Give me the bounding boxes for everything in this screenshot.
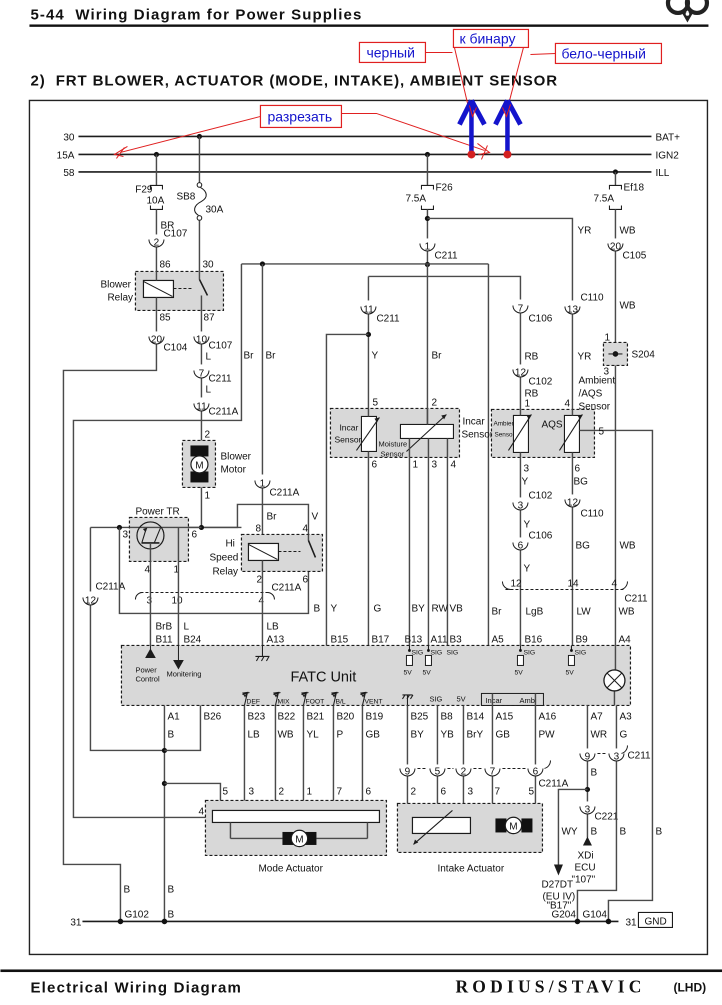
- node: F29 tap on IGN2: [154, 152, 159, 157]
- svg-text:LB: LB: [266, 621, 279, 632]
- svg-text:1: 1: [425, 241, 431, 252]
- wire L to FATC B24: [177, 592, 179, 645]
- svg-text:5: 5: [435, 766, 441, 777]
- wire WB to S204: [614, 251, 616, 342]
- header rule: [29, 24, 708, 26]
- relay Hi Speed Relay: [209, 523, 322, 585]
- diagram outer border: [29, 100, 707, 954]
- terminal XDi ECU: [583, 836, 592, 845]
- wire BY drop to B13: [408, 457, 410, 645]
- svg-text:C105: C105: [622, 250, 646, 261]
- svg-text:B22: B22: [277, 711, 295, 722]
- svg-text:Y: Y: [521, 476, 528, 487]
- svg-text:11: 11: [363, 304, 374, 315]
- svg-text:Y: Y: [523, 519, 530, 530]
- svg-text:SIG: SIG: [574, 649, 586, 656]
- wire WY branch: [558, 789, 587, 864]
- svg-text:B16: B16: [524, 634, 542, 645]
- svg-text:1: 1: [604, 332, 610, 343]
- svg-text:5V: 5V: [565, 669, 574, 676]
- sensor unit Ambient/AQS: [491, 409, 594, 457]
- wire A16 to C211A-6: [534, 705, 536, 764]
- svg-text:3: 3: [523, 463, 529, 474]
- svg-text:A15: A15: [495, 711, 513, 722]
- transistor Power TR: [122, 506, 201, 575]
- svg-text:G: G: [373, 603, 381, 614]
- wire BG chain to B9: [571, 457, 573, 494]
- svg-text:6: 6: [191, 529, 197, 540]
- svg-text:8: 8: [255, 523, 261, 534]
- svg-text:C107: C107: [208, 340, 232, 351]
- svg-text:14: 14: [567, 578, 579, 589]
- svg-text:B8: B8: [440, 711, 453, 722]
- footer rule: [0, 969, 722, 972]
- svg-text:7: 7: [199, 368, 205, 379]
- svg-text:A11: A11: [430, 634, 447, 645]
- svg-text:12: 12: [567, 497, 579, 508]
- svg-text:GB: GB: [365, 729, 380, 740]
- svg-text:разрезать: разрезать: [267, 108, 332, 124]
- wire RB feeder: [368, 276, 520, 299]
- svg-text:C211A: C211A: [208, 406, 238, 417]
- svg-text:2: 2: [278, 786, 284, 797]
- svg-text:B13: B13: [404, 634, 422, 645]
- svg-text:G: G: [619, 729, 627, 740]
- svg-text:4: 4: [564, 398, 570, 409]
- svg-text:Br: Br: [243, 350, 254, 361]
- svg-text:B: B: [590, 826, 597, 837]
- svg-text:9: 9: [585, 751, 591, 762]
- svg-text:P: P: [336, 729, 343, 740]
- svg-text:WB: WB: [619, 300, 635, 311]
- svg-text:WY: WY: [561, 826, 577, 837]
- svg-text:C106: C106: [528, 313, 552, 324]
- mode actuator pin labels: [198, 786, 371, 817]
- svg-text:WB: WB: [277, 729, 293, 740]
- svg-text:C211A: C211A: [269, 487, 299, 498]
- svg-text:6: 6: [371, 459, 377, 470]
- svg-text:B3: B3: [449, 634, 462, 645]
- wire Y branch to B15 rail: [326, 334, 368, 645]
- svg-text:B24: B24: [183, 634, 201, 645]
- wire transistor base feed: [90, 526, 241, 528]
- svg-text:BG: BG: [575, 540, 590, 551]
- svg-text:B: B: [167, 909, 174, 920]
- connector C104 pin 20: [149, 334, 188, 353]
- svg-text:D27DT: D27DT: [541, 879, 573, 890]
- wire B19 to mode6: [361, 705, 363, 812]
- svg-text:C102: C102: [528, 376, 552, 387]
- svg-text:13: 13: [567, 304, 579, 315]
- svg-text:Power: Power: [135, 665, 157, 674]
- svg-text:Motor: Motor: [220, 464, 246, 475]
- wire B8 to C211A-5: [436, 705, 438, 764]
- svg-text:LB: LB: [247, 729, 260, 740]
- svg-text:10: 10: [171, 595, 183, 606]
- svg-text:30A: 30A: [205, 204, 223, 215]
- svg-text:C110: C110: [580, 292, 604, 303]
- lamp indicator in FATC: [604, 645, 625, 705]
- svg-text:B: B: [167, 884, 174, 895]
- svg-text:6: 6: [533, 766, 539, 777]
- node G204: [575, 919, 581, 925]
- node: SB8 tap on BAT+: [197, 134, 202, 139]
- svg-text:M: M: [195, 460, 203, 471]
- svg-text:Blower: Blower: [100, 279, 131, 290]
- svg-text:B25: B25: [410, 711, 428, 722]
- node collector junction: [199, 525, 204, 530]
- svg-text:SIG: SIG: [430, 649, 442, 656]
- svg-text:Mode Actuator: Mode Actuator: [258, 863, 323, 874]
- svg-text:B17: B17: [371, 634, 389, 645]
- svg-text:B: B: [167, 729, 174, 740]
- svg-text:C107: C107: [163, 228, 187, 239]
- svg-text:L: L: [183, 621, 189, 632]
- SsangYong logo: [668, 0, 707, 21]
- svg-text:12: 12: [85, 595, 97, 606]
- svg-text:VB: VB: [449, 603, 463, 614]
- svg-text:Br: Br: [266, 511, 277, 522]
- node F26 out: [425, 216, 430, 221]
- splice S204: [603, 342, 655, 365]
- svg-text:B23: B23: [247, 711, 265, 722]
- svg-text:10A: 10A: [146, 195, 164, 206]
- svg-text:C102: C102: [528, 490, 552, 501]
- svg-text:Sensor: Sensor: [380, 449, 404, 458]
- svg-text:9: 9: [405, 766, 411, 777]
- wire RB to Ambient pin1: [519, 377, 521, 409]
- svg-text:6: 6: [302, 574, 308, 585]
- wire C211-11 down: [367, 314, 369, 408]
- svg-text:Sensor: Sensor: [494, 431, 515, 438]
- svg-text:12: 12: [515, 367, 527, 378]
- FATC Unit: [121, 645, 630, 705]
- svg-text:5: 5: [372, 397, 378, 408]
- connector C221 pin 3: [580, 804, 619, 822]
- svg-text:6: 6: [574, 463, 580, 474]
- svg-text:F26: F26: [435, 182, 453, 193]
- svg-text:VENT: VENT: [364, 698, 382, 705]
- svg-text:RB: RB: [524, 351, 538, 362]
- wire Br rail to C211A-1: [261, 264, 263, 475]
- wire B26 join: [164, 705, 200, 750]
- wire A3/G to G204: [577, 761, 616, 921]
- svg-text:FATC Unit: FATC Unit: [290, 669, 356, 685]
- svg-text:Relay: Relay: [212, 566, 238, 577]
- svg-text:Moisture: Moisture: [378, 439, 407, 448]
- annotation: blue arrow left (черный wire): [459, 100, 484, 158]
- svg-text:1: 1: [412, 459, 418, 470]
- svg-text:M: M: [509, 821, 517, 832]
- svg-text:BrB: BrB: [155, 621, 172, 632]
- connector C211A pin 1: [255, 478, 300, 498]
- svg-text:B: B: [590, 767, 597, 778]
- svg-text:1: 1: [524, 398, 530, 409]
- FATC mode switches: [242, 692, 543, 705]
- svg-text:ILL: ILL: [655, 168, 669, 179]
- wire Br to Moisture pin2: [426, 264, 428, 424]
- connector C211 pin 7: [194, 368, 232, 384]
- annotation: черный callout: [359, 42, 452, 62]
- wire SB8 drop: [198, 136, 200, 182]
- svg-text:Y: Y: [371, 350, 378, 361]
- connector C105 pin 20: [608, 241, 647, 261]
- node A1/B26 join: [162, 748, 167, 753]
- svg-text:A4: A4: [618, 634, 631, 645]
- svg-text:2: 2: [461, 766, 467, 777]
- svg-text:DEF: DEF: [246, 698, 260, 705]
- svg-text:6: 6: [365, 786, 371, 797]
- wire C104 to left rail: [63, 344, 156, 921]
- annotation: бело-черный callout: [530, 43, 661, 63]
- arrow to D27DT: [554, 864, 563, 875]
- wire C107 to relay pin86: [155, 247, 157, 271]
- svg-text:Incar: Incar: [339, 422, 358, 432]
- svg-text:SIG: SIG: [429, 694, 442, 703]
- svg-text:5: 5: [222, 786, 228, 797]
- connector C211A row 9/5/2/7/6: [400, 760, 569, 789]
- connector C211 pin 11: [361, 304, 400, 324]
- svg-text:G204: G204: [551, 909, 576, 920]
- svg-text:C104: C104: [163, 342, 187, 353]
- svg-text:RW: RW: [431, 603, 448, 614]
- svg-text:5: 5: [528, 786, 534, 797]
- svg-text:B/L: B/L: [335, 698, 345, 705]
- bus BAT+ (30): [78, 135, 651, 137]
- svg-text:11: 11: [196, 401, 207, 412]
- svg-text:черный: черный: [366, 44, 414, 60]
- svg-text:6: 6: [440, 786, 446, 797]
- svg-text:Ambient: Ambient: [578, 375, 615, 386]
- svg-text:Intake Actuator: Intake Actuator: [437, 863, 504, 874]
- node pin1 tap: [176, 525, 181, 530]
- svg-text:7: 7: [518, 303, 524, 314]
- svg-text:GND: GND: [644, 916, 666, 927]
- svg-text:B21: B21: [306, 711, 324, 722]
- wire relay85 to C104: [155, 310, 157, 331]
- svg-text:1: 1: [306, 786, 312, 797]
- connector C102 pin 12: [513, 367, 553, 387]
- svg-text:B: B: [655, 826, 662, 837]
- connector C211A row 3/10/4: [135, 582, 301, 606]
- annotation: red pointers onto blue arrows: [469, 105, 476, 116]
- svg-text:BG: BG: [573, 476, 588, 487]
- svg-text:Speed: Speed: [209, 552, 238, 563]
- wire A3 to C211-3: [615, 705, 617, 748]
- wire B21 to mode1: [302, 705, 304, 812]
- svg-text:GB: GB: [495, 729, 510, 740]
- svg-text:30: 30: [63, 132, 75, 143]
- svg-text:3: 3: [122, 529, 128, 540]
- wire A7 B to branch: [586, 761, 588, 801]
- svg-text:B26: B26: [203, 711, 221, 722]
- svg-text:IGN2: IGN2: [655, 150, 679, 161]
- wire C221 to XDi ECU: [586, 814, 588, 837]
- svg-text:31: 31: [70, 917, 82, 928]
- wire B20 to mode7: [332, 705, 334, 812]
- svg-text:5V: 5V: [403, 669, 412, 676]
- svg-text:3: 3: [431, 459, 437, 470]
- wire C211A-12 to B junction: [90, 605, 164, 750]
- wire YR feeder: [427, 218, 572, 300]
- svg-text:WB: WB: [619, 540, 635, 551]
- wire S204 down: [614, 365, 616, 584]
- label Ambient/AQS Sensor: [578, 375, 615, 412]
- svg-text:5V: 5V: [456, 694, 465, 703]
- svg-text:5-44 Wiring Diagram for Power: 5-44 Wiring Diagram for Power Supplies: [30, 6, 362, 23]
- node G104: [606, 919, 612, 925]
- svg-text:WB: WB: [618, 606, 634, 617]
- svg-text:B: B: [619, 826, 626, 837]
- svg-text:Monitering: Monitering: [166, 669, 201, 678]
- annotation: разрезать callout: [114, 105, 489, 159]
- svg-text:20: 20: [610, 241, 622, 252]
- intake actuator pin labels: [410, 786, 534, 797]
- connector C102 pin 3: [513, 490, 553, 511]
- svg-text:ECU: ECU: [574, 862, 595, 873]
- svg-text:A16: A16: [538, 711, 556, 722]
- connector C107 pin 2: [149, 228, 188, 248]
- svg-text:3: 3: [146, 595, 152, 606]
- svg-text:5: 5: [598, 426, 604, 437]
- FATC bottom pin labels: [167, 711, 632, 740]
- svg-text:B11: B11: [155, 634, 172, 645]
- svg-text:2: 2: [154, 237, 160, 248]
- svg-text:3: 3: [585, 804, 591, 815]
- svg-text:L: L: [205, 351, 211, 362]
- svg-text:BAT+: BAT+: [655, 132, 680, 143]
- wire V loop transistor collector to relay pin4: [201, 504, 308, 534]
- fuse Ef18 7.5A: [593, 182, 644, 209]
- svg-text:15A: 15A: [57, 150, 75, 161]
- wire Br rail left: [73, 264, 241, 818]
- fuse F29 10A: [135, 184, 164, 209]
- svg-text:Br: Br: [265, 350, 276, 361]
- wire WB to A4: [614, 584, 616, 645]
- svg-text:AQS: AQS: [541, 419, 562, 430]
- svg-text:RODIUS/STAVIC: RODIUS/STAVIC: [455, 976, 645, 996]
- node mode pin5 branch: [162, 781, 167, 786]
- wire RB to C102: [519, 313, 521, 364]
- wire WB to C105: [614, 209, 616, 238]
- svg-text:C110: C110: [580, 508, 604, 519]
- svg-text:"107": "107": [571, 874, 595, 885]
- svg-text:3: 3: [614, 751, 620, 762]
- svg-text:XDi: XDi: [577, 850, 593, 861]
- actuator Mode Actuator: [205, 800, 386, 855]
- svg-text:Control: Control: [135, 674, 160, 683]
- svg-text:10: 10: [196, 334, 208, 345]
- svg-text:C211A: C211A: [95, 581, 125, 592]
- ground bus 31: [82, 920, 618, 922]
- svg-text:A5: A5: [491, 634, 504, 645]
- svg-text:A13: A13: [266, 634, 284, 645]
- svg-text:Power TR: Power TR: [135, 506, 179, 517]
- svg-text:FOOT: FOOT: [305, 698, 324, 705]
- svg-text:G104: G104: [582, 909, 607, 920]
- svg-text:7: 7: [494, 786, 500, 797]
- svg-text:A7: A7: [590, 711, 603, 722]
- svg-text:3: 3: [248, 786, 254, 797]
- wire C211A to blower motor pin2: [200, 411, 202, 440]
- wire B14 to C211A-2: [462, 705, 464, 764]
- svg-text:7: 7: [336, 786, 342, 797]
- svg-text:Blower: Blower: [220, 451, 251, 462]
- svg-text:2) FRT BLOWER, ACTUATOR (MODE: 2) FRT BLOWER, ACTUATOR (MODE, INTAKE), …: [30, 72, 558, 89]
- wire relay pin2 to C211A-4: [261, 571, 263, 592]
- svg-text:Hi: Hi: [225, 538, 234, 549]
- svg-text:M: M: [295, 834, 303, 845]
- connector C110 pin 12: [565, 497, 604, 519]
- svg-text:Y: Y: [523, 563, 530, 574]
- svg-text:SB8: SB8: [176, 191, 195, 202]
- wire L to C211A: [200, 378, 202, 397]
- svg-text:87: 87: [203, 312, 215, 323]
- connector C110 pin 13: [565, 292, 604, 315]
- svg-text:SIG: SIG: [523, 649, 535, 656]
- svg-text:4: 4: [198, 806, 204, 817]
- svg-text:2: 2: [256, 574, 262, 585]
- svg-text:4: 4: [611, 578, 617, 589]
- svg-text:3: 3: [518, 500, 524, 511]
- wire AQS pin5: [579, 430, 652, 921]
- svg-text:SIG: SIG: [446, 649, 458, 656]
- svg-text:C211: C211: [627, 750, 651, 761]
- wire BrB to FATC B11: [149, 592, 151, 645]
- FATC SIG inputs with pull-ups: [403, 645, 586, 676]
- svg-text:1: 1: [204, 490, 210, 501]
- svg-text:4: 4: [450, 459, 456, 470]
- svg-text:YR: YR: [577, 225, 591, 236]
- svg-text:YR: YR: [577, 351, 591, 362]
- svg-text:F29: F29: [135, 184, 153, 195]
- svg-text:86: 86: [159, 259, 171, 270]
- sensor unit Incar/Moisture: [330, 408, 459, 458]
- svg-text:58: 58: [63, 168, 75, 179]
- svg-text:7.5A: 7.5A: [405, 193, 426, 204]
- connector C211 pin 1: [420, 241, 458, 261]
- svg-text:WR: WR: [590, 729, 607, 740]
- svg-text:B: B: [123, 884, 130, 895]
- svg-text:G102: G102: [124, 909, 149, 920]
- wire L to C211: [200, 344, 202, 364]
- svg-text:Electrical Wiring Diagram: Electrical Wiring Diagram: [30, 979, 242, 996]
- svg-text:31: 31: [625, 917, 637, 928]
- connector C106 pin 6: [513, 530, 553, 551]
- svg-text:2: 2: [410, 786, 416, 797]
- node base junction: [117, 525, 122, 530]
- svg-text:B: B: [313, 603, 320, 614]
- svg-text:BY: BY: [410, 729, 424, 740]
- node Br distribution: [425, 262, 430, 267]
- svg-text:4: 4: [258, 595, 264, 606]
- fuse F26 7.5A: [405, 182, 453, 209]
- svg-text:L: L: [205, 384, 211, 395]
- annotation: к бинару callout: [453, 29, 528, 111]
- wires C211A to intake actuator: [407, 776, 413, 817]
- wire SB8 to relay pin30: [198, 220, 200, 271]
- svg-text:5V: 5V: [514, 669, 523, 676]
- wire F26 drop: [426, 154, 428, 185]
- wire A7 to C211-9: [586, 705, 588, 748]
- wire VB drop to B3: [446, 457, 448, 645]
- svg-text:Incar: Incar: [462, 416, 485, 427]
- svg-text:V: V: [311, 511, 318, 522]
- wire F29 to C107: [155, 209, 157, 234]
- wire C211-11 feeder: [367, 276, 369, 300]
- svg-text:C211: C211: [624, 593, 648, 604]
- svg-text:7: 7: [490, 766, 496, 777]
